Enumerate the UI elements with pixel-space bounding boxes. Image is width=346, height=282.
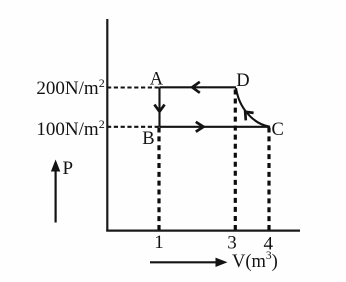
- svg-text:P: P: [63, 158, 74, 179]
- P axis arrow: [51, 160, 60, 223]
- svg-text:B: B: [142, 129, 154, 149]
- dashed guide line at V=4: [267, 128, 270, 231]
- svg-text:1: 1: [154, 232, 164, 253]
- dashed guide line at P=200: [108, 86, 159, 88]
- svg-text:4: 4: [264, 233, 274, 254]
- svg-text:D: D: [236, 71, 249, 91]
- svg-text:100N/m2: 100N/m2: [36, 117, 104, 140]
- svg-text:A: A: [150, 70, 164, 90]
- y-axis (P axis line): [106, 19, 108, 231]
- dashed guide line at V=1: [157, 128, 160, 231]
- process C to D (curve with up-left arrow): [236, 88, 270, 127]
- process D to A (top isobar with left arrow): [160, 82, 237, 93]
- V axis arrow: [150, 258, 228, 267]
- process B to C (bottom isobar with right arrow): [160, 122, 271, 132]
- svg-text:3: 3: [227, 233, 237, 254]
- svg-text:200N/m2: 200N/m2: [36, 76, 104, 99]
- x-axis (V axis line): [106, 230, 300, 232]
- svg-text:C: C: [272, 120, 284, 140]
- dashed guide line at V=3: [234, 90, 237, 231]
- process A to B (vertical line with down arrow): [154, 87, 164, 127]
- dashed guide line at P=100: [108, 126, 159, 128]
